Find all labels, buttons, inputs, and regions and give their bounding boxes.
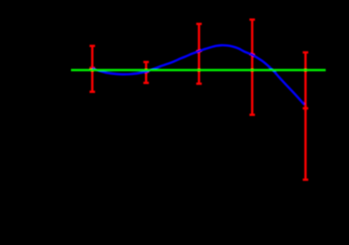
blue interpolating curve [92,45,304,104]
point marker P1 [90,65,96,71]
point marker P4 [249,52,255,58]
point marker P5 [303,106,309,112]
errorbar E3 [196,24,202,84]
errorbar E1 [90,46,96,92]
errorbar E2 [143,62,149,83]
point marker P2 [143,69,149,75]
green horizontal line [71,69,326,71]
errorbar E4 [249,20,255,115]
errorbar E5 [303,52,309,179]
point marker P3 [196,48,202,54]
